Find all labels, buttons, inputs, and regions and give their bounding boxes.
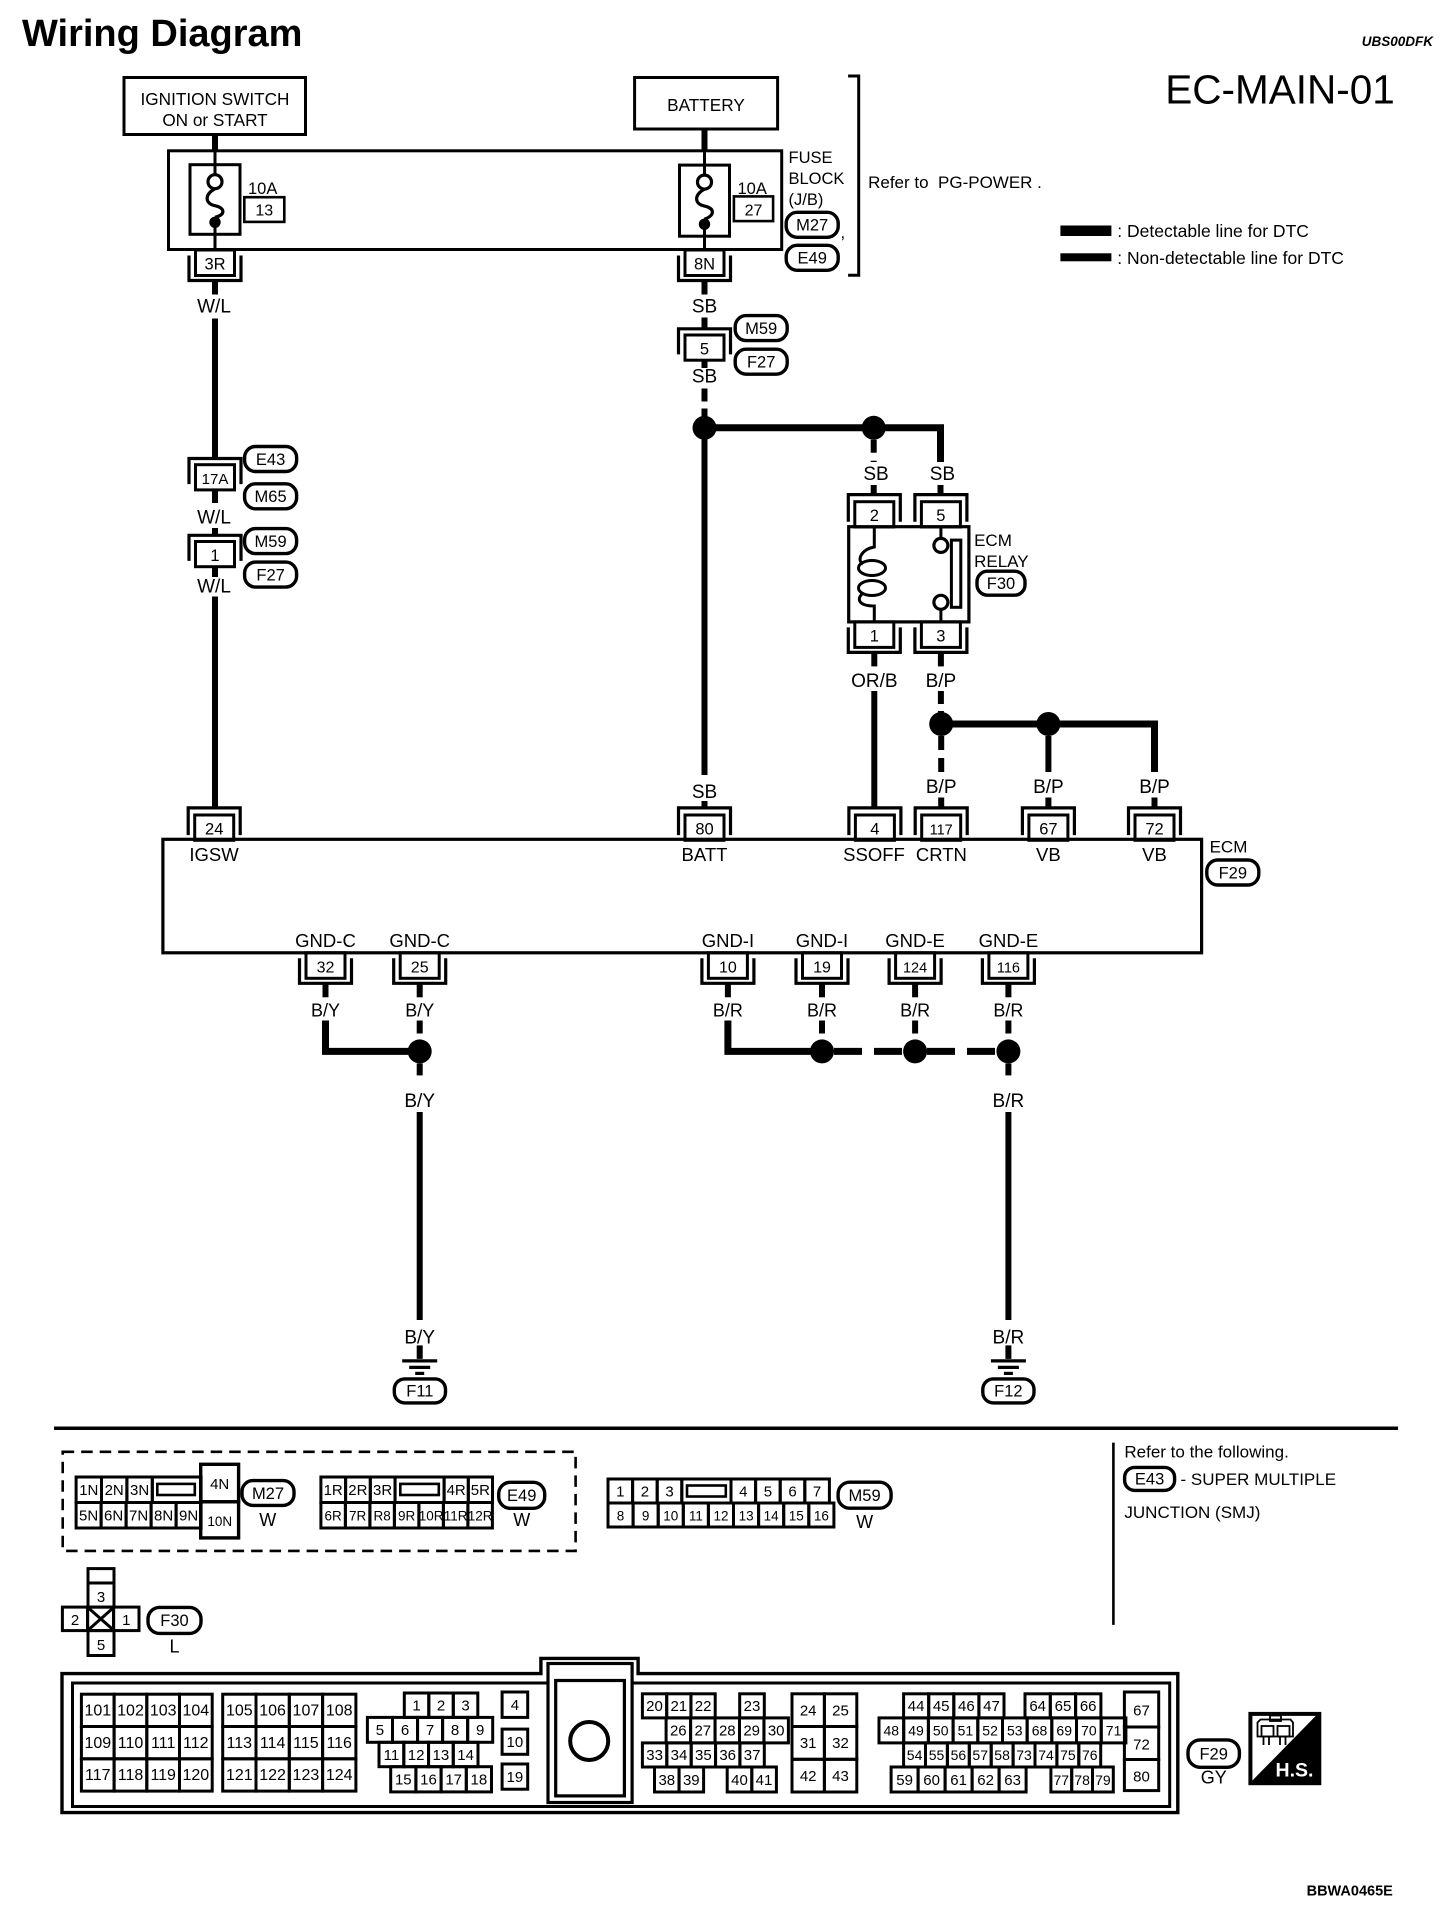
svg-text:SSOFF: SSOFF (843, 844, 905, 865)
dashed wire below dot C (938, 736, 944, 772)
connector 3R under fuse block (196, 250, 235, 276)
svg-text:(J/B): (J/B) (789, 191, 824, 209)
svg-text:12: 12 (713, 1508, 728, 1523)
svg-text:102: 102 (117, 1703, 144, 1720)
pin grid 44-79 stepped block (904, 1694, 929, 1718)
ECM pin 67 (1029, 815, 1068, 840)
dashed group box (M27/E49) (63, 1452, 576, 1551)
oval M65 (245, 484, 297, 509)
svg-text:3N: 3N (130, 1482, 149, 1499)
svg-text:124: 124 (326, 1767, 353, 1784)
ECM connector key block (548, 1664, 632, 1803)
stub to pin 67 (1045, 798, 1051, 808)
oval M27 (grid) (242, 1481, 294, 1506)
svg-text:B/P: B/P (1033, 777, 1064, 798)
svg-text:JUNCTION (SMJ): JUNCTION (SMJ) (1124, 1503, 1260, 1522)
oval F29 (1207, 860, 1259, 885)
junction dot H (996, 1039, 1020, 1063)
svg-text:GY: GY (1201, 1767, 1227, 1787)
svg-text:BATT: BATT (682, 844, 728, 865)
svg-text:5: 5 (97, 1637, 105, 1654)
legend: detectable line bar (1060, 226, 1111, 237)
svg-text:16: 16 (814, 1508, 829, 1523)
svg-text:77: 77 (1054, 1772, 1070, 1788)
svg-text:8N: 8N (694, 256, 715, 274)
key circle (570, 1722, 608, 1760)
pin grid 20-41 stepped block (642, 1694, 666, 1718)
svg-text:BATTERY: BATTERY (667, 95, 745, 115)
svg-text:2N: 2N (105, 1482, 124, 1499)
svg-text:IGSW: IGSW (189, 844, 239, 865)
svg-text:109: 109 (84, 1735, 111, 1752)
svg-text:21: 21 (670, 1698, 687, 1715)
svg-text:117: 117 (85, 1767, 111, 1784)
svg-text:61: 61 (950, 1772, 967, 1789)
svg-text:31: 31 (800, 1735, 817, 1752)
svg-text:3R: 3R (373, 1482, 392, 1499)
oval F12 (983, 1379, 1034, 1403)
svg-text:B/R: B/R (993, 1001, 1023, 1021)
svg-text:7: 7 (426, 1722, 434, 1739)
svg-text:GND-C: GND-C (295, 930, 356, 951)
svg-text:4: 4 (870, 820, 879, 838)
svg-text:57: 57 (972, 1747, 988, 1763)
svg-text:3: 3 (665, 1483, 673, 1500)
ECM connector inner shell (73, 1683, 1170, 1807)
svg-text:46: 46 (958, 1698, 975, 1715)
svg-text:55: 55 (929, 1747, 945, 1763)
svg-text:8N: 8N (154, 1508, 173, 1525)
svg-text:W/L: W/L (197, 296, 231, 317)
wire battery to fuse block (702, 129, 708, 152)
ECM relay body (849, 527, 969, 622)
ECM pin 4 (855, 815, 894, 840)
svg-text:11: 11 (689, 1508, 703, 1523)
svg-text:E49: E49 (507, 1487, 536, 1505)
svg-text:50: 50 (933, 1723, 949, 1739)
pin column 67/72/80 (1124, 1692, 1158, 1727)
separator line (54, 1427, 1398, 1431)
long wire W/L down to ECM pin 24 (212, 597, 218, 808)
connector 5 inline (679, 329, 731, 355)
svg-text:1N: 1N (79, 1482, 98, 1499)
svg-text:1: 1 (616, 1483, 624, 1500)
oval M59 (grid) (838, 1482, 891, 1508)
svg-text:F30: F30 (987, 575, 1015, 593)
legend: non-detectable line bar (1060, 253, 1111, 261)
svg-text:GND-E: GND-E (979, 930, 1039, 951)
svg-text:68: 68 (1032, 1723, 1048, 1739)
svg-text:62: 62 (977, 1772, 994, 1789)
wire stub below 1 (212, 567, 218, 578)
pin grid 1-18 stepped block (404, 1693, 429, 1717)
svg-text:VB: VB (1036, 844, 1061, 865)
svg-text:5: 5 (700, 340, 709, 358)
svg-text:GND-I: GND-I (796, 930, 848, 951)
svg-text:8: 8 (451, 1722, 459, 1739)
svg-text:111: 111 (151, 1735, 175, 1752)
svg-text:113: 113 (227, 1735, 253, 1752)
H.S. icon (1248, 1712, 1321, 1785)
svg-text:: Non-detectable line for DTC: : Non-detectable line for DTC (1117, 248, 1344, 268)
svg-text:37: 37 (744, 1747, 761, 1764)
svg-text:60: 60 (923, 1772, 940, 1789)
stub to pin 72 (1152, 798, 1158, 808)
svg-text:5: 5 (936, 507, 945, 525)
wire W/L down to 17A (212, 319, 218, 459)
stub to relay pin 5 (938, 485, 944, 495)
bus wire A to B (705, 424, 874, 431)
svg-text:F29: F29 (1199, 1745, 1227, 1763)
svg-text:9R: 9R (398, 1509, 416, 1524)
relay pin 5 connector (921, 502, 960, 527)
svg-text:3R: 3R (204, 256, 225, 274)
pin grid 105-124 block B (223, 1694, 256, 1726)
svg-text:104: 104 (182, 1703, 209, 1720)
dashed stub below dot E (417, 1063, 423, 1080)
svg-text:6: 6 (788, 1483, 796, 1500)
svg-text:64: 64 (1029, 1698, 1046, 1715)
oval M59 (battery line) (735, 316, 787, 341)
svg-text:W: W (856, 1512, 873, 1532)
junction dot C (929, 712, 953, 736)
svg-text:10: 10 (663, 1508, 678, 1523)
ground symbol F12 (1005, 1345, 1011, 1359)
fuse block box (169, 151, 782, 250)
svg-text:BLOCK: BLOCK (789, 170, 845, 188)
svg-text:FUSE: FUSE (789, 149, 833, 167)
svg-text:VB: VB (1142, 844, 1167, 865)
svg-text:16: 16 (420, 1772, 437, 1789)
svg-text:2: 2 (641, 1483, 649, 1500)
oval M59 (245, 529, 297, 554)
svg-text:42: 42 (800, 1768, 817, 1785)
svg-text:6R: 6R (324, 1509, 342, 1524)
svg-text:38: 38 (658, 1772, 675, 1789)
svg-text:117: 117 (930, 822, 953, 838)
svg-text:80: 80 (1133, 1769, 1150, 1786)
relay pin 1 connector (855, 622, 894, 648)
svg-text:18: 18 (471, 1772, 488, 1789)
svg-text:44: 44 (908, 1698, 925, 1715)
svg-text:10A: 10A (248, 180, 277, 198)
svg-text:EC-MAIN-01: EC-MAIN-01 (1165, 67, 1395, 113)
svg-text:29: 29 (743, 1723, 760, 1740)
bus wire B to corner, down to relay pin 5 (874, 428, 941, 462)
svg-text:9N: 9N (179, 1508, 198, 1525)
svg-text:F27: F27 (747, 354, 775, 372)
svg-text:1: 1 (412, 1698, 420, 1715)
dashed wire dot B down (871, 440, 877, 462)
wire stub below 5 (702, 360, 708, 368)
svg-text:M27: M27 (796, 217, 828, 235)
svg-text:36: 36 (719, 1747, 736, 1764)
svg-text:27: 27 (694, 1723, 711, 1740)
svg-text:B/R: B/R (713, 1001, 743, 1021)
svg-text:32: 32 (832, 1735, 849, 1752)
junction dot G (903, 1039, 927, 1063)
svg-text:3: 3 (936, 627, 945, 645)
wire OR/B down to ECM pin 4 (871, 691, 877, 808)
svg-text:6: 6 (401, 1722, 409, 1739)
junction dot F (810, 1039, 834, 1063)
svg-text:4: 4 (739, 1483, 747, 1500)
svg-text:B/P: B/P (926, 671, 957, 692)
svg-text:76: 76 (1082, 1747, 1098, 1763)
svg-text:6N: 6N (104, 1508, 123, 1525)
ECM pin 116 (989, 953, 1028, 979)
svg-text:13: 13 (433, 1747, 450, 1764)
svg-text:75: 75 (1060, 1747, 1076, 1763)
wire below dot D (1045, 736, 1051, 772)
svg-text:4N: 4N (210, 1476, 229, 1493)
svg-text:- SUPER MULTIPLE: - SUPER MULTIPLE (1181, 1470, 1337, 1489)
svg-text:35: 35 (695, 1747, 712, 1764)
svg-text:SB: SB (930, 464, 955, 485)
battery box (635, 78, 778, 130)
svg-text:121: 121 (226, 1767, 253, 1784)
connector grid E49 (321, 1477, 346, 1503)
ECM pin 32 (306, 953, 345, 979)
svg-text:2: 2 (870, 507, 879, 525)
svg-text:116: 116 (997, 960, 1020, 976)
relay pin 3 connector (921, 622, 960, 648)
relay switch contacts (939, 527, 942, 538)
oval F30 (977, 571, 1025, 595)
svg-text:5R: 5R (471, 1482, 490, 1499)
connector F30 cross (88, 1569, 114, 1583)
svg-text:48: 48 (884, 1723, 900, 1739)
svg-text:5N: 5N (79, 1508, 98, 1525)
stub to relay pin 2 (871, 485, 877, 495)
svg-text:B/Y: B/Y (405, 1001, 434, 1021)
svg-text:107: 107 (293, 1703, 320, 1720)
svg-text:B/R: B/R (900, 1001, 930, 1021)
svg-text:3: 3 (461, 1698, 469, 1715)
svg-text:M65: M65 (255, 488, 287, 506)
svg-text:5: 5 (764, 1483, 772, 1500)
svg-text:SB: SB (692, 366, 717, 387)
svg-text:B/Y: B/Y (404, 1091, 435, 1112)
wire ignition switch to fuse block (212, 135, 218, 153)
svg-text:4: 4 (511, 1697, 519, 1714)
dashed wire SB to junction (702, 389, 708, 421)
svg-text:1: 1 (122, 1612, 130, 1629)
svg-text:,: , (841, 224, 846, 242)
svg-text:45: 45 (933, 1698, 950, 1715)
bus wire C to D (941, 721, 1048, 728)
ECM pin 72 (1135, 815, 1174, 840)
svg-text:72: 72 (1145, 820, 1163, 838)
svg-text:B/R: B/R (993, 1091, 1025, 1112)
svg-text:103: 103 (150, 1703, 177, 1720)
svg-text:W/L: W/L (197, 508, 231, 529)
svg-text:M27: M27 (252, 1485, 284, 1503)
svg-text:20: 20 (646, 1698, 663, 1715)
relay contact bar (951, 540, 960, 607)
wire stub above 1 (212, 528, 218, 535)
junction dot D (1036, 712, 1060, 736)
svg-text:119: 119 (150, 1767, 176, 1784)
svg-text:OR/B: OR/B (851, 671, 897, 692)
svg-text:106: 106 (259, 1703, 286, 1720)
svg-text:52: 52 (982, 1723, 998, 1739)
svg-text:124: 124 (903, 960, 927, 976)
oval F27 (245, 562, 297, 587)
svg-text:115: 115 (293, 1735, 319, 1752)
svg-text:7N: 7N (129, 1508, 148, 1525)
wire pin 32 corner to bus (326, 1021, 412, 1052)
svg-text:40: 40 (731, 1772, 748, 1789)
vertical divider line (1112, 1443, 1115, 1625)
svg-text:67: 67 (1039, 820, 1057, 838)
svg-text:IGNITION SWITCH: IGNITION SWITCH (141, 89, 290, 109)
svg-text:43: 43 (832, 1768, 849, 1785)
svg-text:32: 32 (317, 959, 335, 976)
svg-text:67: 67 (1133, 1703, 1150, 1720)
svg-text:25: 25 (832, 1702, 849, 1719)
svg-text:1R: 1R (324, 1482, 343, 1499)
svg-text:F11: F11 (406, 1383, 433, 1401)
stub to pin 80 (702, 801, 708, 808)
svg-text:W: W (513, 1510, 530, 1530)
svg-text:72: 72 (1133, 1737, 1150, 1754)
ECM box (163, 839, 1202, 953)
connector 17A inline (189, 459, 241, 485)
svg-text:14: 14 (457, 1747, 474, 1764)
svg-text:63: 63 (1004, 1772, 1021, 1789)
connector 8N under fuse block (685, 250, 724, 276)
svg-text:ECM: ECM (1210, 838, 1248, 857)
svg-text:17A: 17A (202, 471, 229, 488)
connector E49 oval (786, 245, 838, 270)
svg-text:1: 1 (210, 547, 219, 565)
svg-text:SB: SB (863, 464, 888, 485)
svg-text:1: 1 (870, 627, 879, 645)
svg-text:49: 49 (908, 1723, 924, 1739)
svg-text:SB: SB (692, 782, 717, 803)
svg-text:56: 56 (951, 1747, 967, 1763)
stub to pin 117 (938, 798, 944, 808)
svg-text:54: 54 (907, 1747, 923, 1763)
svg-text:11R: 11R (444, 1509, 468, 1524)
wire pin 10 corner to bus (728, 1021, 813, 1052)
svg-text:10: 10 (507, 1734, 524, 1751)
svg-text:118: 118 (118, 1767, 144, 1784)
pin grid 24-43 block (792, 1694, 824, 1727)
svg-text:101: 101 (84, 1703, 111, 1720)
svg-text:5: 5 (376, 1722, 384, 1739)
svg-text:123: 123 (293, 1767, 320, 1784)
svg-text:CRTN: CRTN (916, 844, 967, 865)
svg-text:14: 14 (764, 1508, 780, 1523)
key block inner (556, 1681, 625, 1796)
svg-text:110: 110 (118, 1735, 144, 1752)
svg-text:19: 19 (507, 1769, 524, 1786)
svg-text:Refer to the following.: Refer to the following. (1124, 1443, 1288, 1462)
ECM pin 24 (195, 815, 234, 840)
ECM pin 117 (922, 815, 961, 840)
svg-text:Wiring Diagram: Wiring Diagram (22, 13, 302, 55)
svg-text:B/Y: B/Y (311, 1001, 340, 1021)
fuse 27 (10A) (680, 165, 730, 236)
svg-text:12: 12 (408, 1747, 425, 1764)
junction dot A (693, 416, 717, 440)
svg-text:26: 26 (670, 1723, 687, 1740)
oval F27 (battery line) (735, 349, 787, 374)
svg-text:51: 51 (958, 1723, 974, 1739)
pin column 4/10/19 (502, 1692, 528, 1717)
svg-text:116: 116 (326, 1735, 352, 1752)
svg-text:108: 108 (326, 1703, 353, 1720)
relay coil (860, 527, 874, 564)
svg-text:10N: 10N (207, 1514, 232, 1529)
svg-text:B/P: B/P (926, 777, 957, 798)
ECM pin 19 (803, 953, 842, 979)
svg-text:28: 28 (719, 1723, 736, 1740)
oval F30 (grid) (148, 1607, 201, 1633)
dashed wire pin 19 to junction (819, 1021, 825, 1044)
svg-text:E43: E43 (1135, 1471, 1164, 1489)
svg-text:120: 120 (182, 1767, 209, 1784)
svg-text:F12: F12 (994, 1383, 1022, 1401)
svg-text:ON or START: ON or START (162, 110, 268, 130)
dashed bus F to G (834, 1048, 903, 1055)
svg-text:F29: F29 (1219, 864, 1247, 882)
svg-text:B/P: B/P (1139, 777, 1170, 798)
svg-text:RELAY: RELAY (974, 552, 1029, 571)
dashed wire pin 124 to junction (912, 1021, 918, 1044)
svg-text:M59: M59 (745, 320, 777, 338)
svg-text:9: 9 (476, 1722, 484, 1739)
svg-text:M59: M59 (255, 533, 287, 551)
svg-text:27: 27 (745, 203, 763, 220)
oval E43 (refer) (1125, 1467, 1175, 1490)
svg-text:7R: 7R (349, 1509, 367, 1524)
svg-text:25: 25 (411, 959, 429, 976)
svg-text:80: 80 (695, 820, 713, 838)
svg-text:F27: F27 (256, 566, 284, 584)
oval F11 (394, 1379, 445, 1403)
svg-text:W: W (259, 1510, 276, 1530)
svg-text:23: 23 (744, 1698, 761, 1715)
svg-text:UBS00DFK: UBS00DFK (1362, 34, 1435, 49)
svg-text:M59: M59 (849, 1487, 881, 1505)
oval F29 (connector) (1188, 1740, 1239, 1767)
svg-text:59: 59 (896, 1772, 913, 1789)
svg-text:34: 34 (671, 1747, 688, 1764)
dashed stub below dot H (1005, 1063, 1011, 1080)
svg-text:9: 9 (642, 1508, 650, 1523)
relay pin 2 connector (855, 502, 894, 527)
connector 1 inline (189, 535, 241, 561)
svg-text:12R: 12R (468, 1509, 493, 1524)
svg-text:69: 69 (1056, 1723, 1072, 1739)
long SB wire from dot A to ECM pin 80 (702, 428, 708, 775)
svg-text:19: 19 (813, 959, 831, 976)
wire stub below 17A (212, 490, 218, 504)
svg-text:15: 15 (395, 1772, 412, 1789)
connector grid M59 (608, 1479, 633, 1503)
svg-text:66: 66 (1080, 1698, 1097, 1715)
ignition switch box (124, 78, 306, 135)
svg-text:30: 30 (768, 1723, 785, 1740)
fuse 13 (10A) (190, 165, 240, 235)
svg-text:SB: SB (692, 296, 717, 317)
svg-text:GND-I: GND-I (702, 930, 754, 951)
junction dot B (862, 416, 886, 440)
svg-text:105: 105 (226, 1703, 253, 1720)
